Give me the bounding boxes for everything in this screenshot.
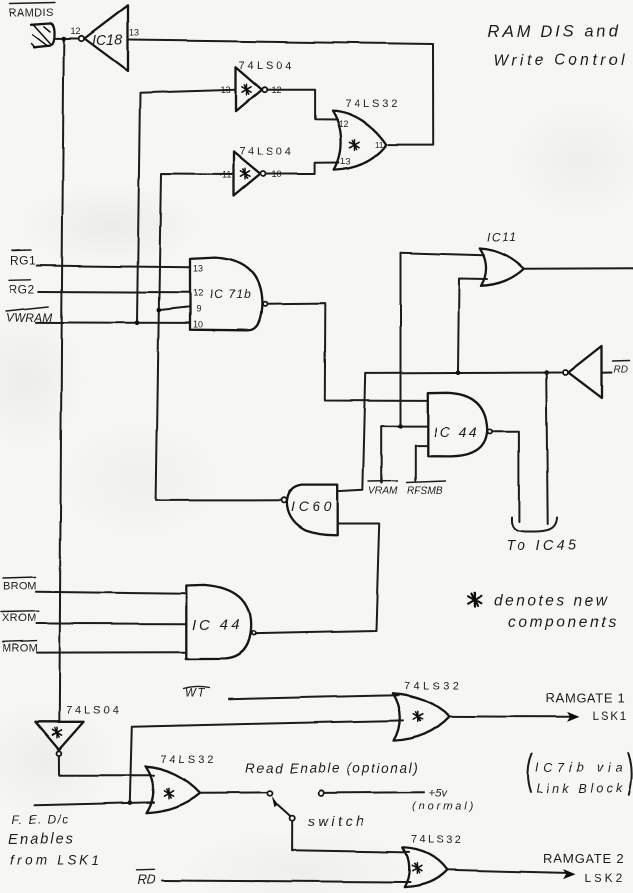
or-gate 74LS32 (RAMGATE 1, new): [392, 680, 462, 741]
inverter 74LS04 (second, new): [219, 146, 294, 196]
net label RD (bottom): [137, 869, 156, 886]
nand-gate IC44 (top): [428, 393, 492, 457]
svg-text:IC 71b: IC 71b: [210, 288, 252, 302]
svg-text:10: 10: [193, 320, 203, 330]
node junction VRAM / IC11 drop: [398, 424, 403, 429]
svg-text:XROM: XROM: [2, 612, 36, 624]
wire switch pole to RAMGATE2 gate top input: [292, 821, 409, 853]
svg-text:RG1: RG1: [10, 254, 36, 268]
wire IC11 top input from VRAM net: [401, 253, 485, 426]
node junction pin9 rail: [157, 308, 162, 313]
svg-text:components: components: [508, 614, 618, 631]
svg-text:Write Control: Write Control: [494, 52, 627, 69]
wire IC11 bottom input from RD net: [458, 279, 487, 373]
svg-text:IC 44: IC 44: [192, 617, 242, 634]
svg-text:from LSK1: from LSK1: [10, 853, 103, 868]
svg-text:denotes new: denotes new: [494, 593, 609, 610]
svg-text:13: 13: [341, 156, 351, 166]
inverter 74LS04 (top, new): [221, 60, 294, 112]
svg-text:Enables: Enables: [9, 831, 75, 847]
svg-text:Read Enable (optional): Read Enable (optional): [245, 761, 419, 776]
svg-text:74LS32: 74LS32: [411, 834, 463, 846]
wire VWRAM to IC71b pin 10: [37, 321, 191, 324]
svg-text:74LS32: 74LS32: [404, 680, 462, 692]
wire MROM to IC44 input: [37, 651, 186, 653]
wire RAMDIS vertical rail down to bottom inverter: [59, 41, 64, 722]
net label WT: [184, 686, 210, 699]
svg-text:RAMDIS: RAMDIS: [9, 7, 54, 19]
wire 74LS04 second input from IC60 output rail: [156, 174, 233, 501]
nand-gate IC60 (mirrored, output left): [281, 485, 338, 536]
or-gate 74LS32 (RAMGATE 2, new): [403, 834, 464, 887]
wire RAMGATE1 output with arrow to LSK1: [450, 691, 629, 724]
legend: star denotes new components: [468, 593, 618, 632]
wire 74LS04 top output to OR pin 12: [268, 90, 338, 120]
note (IC71b via Link Block): [528, 752, 632, 795]
wire IC44 middle input / VRAM stub: [382, 426, 428, 483]
svg-text:IC18: IC18: [92, 33, 123, 49]
wire IC18 output feedback loop to OR 74LS32 output: [128, 40, 433, 145]
svg-text:To IC45: To IC45: [506, 538, 579, 554]
svg-text:RAMGATE 1: RAMGATE 1: [545, 691, 625, 706]
svg-text:12: 12: [193, 288, 203, 298]
wire WT to RAMGATE1 gate top input: [229, 695, 398, 699]
net label MROM: [2, 641, 38, 655]
net label XROM: [1, 611, 39, 624]
svg-text:74LS04: 74LS04: [239, 60, 294, 72]
brace to IC45: [506, 518, 579, 555]
svg-text:(normal): (normal): [412, 801, 476, 813]
or-gate IC11: [480, 231, 524, 286]
wire 74LS04 second output to OR pin 13: [266, 163, 339, 175]
node junction F.E. / WT-gate riser: [128, 800, 133, 805]
svg-text:12: 12: [71, 26, 81, 36]
svg-text:RD: RD: [138, 872, 156, 886]
wire IC44 bottom input / RFSMB stub: [415, 446, 428, 481]
SECTION: bottom: [9, 680, 632, 887]
net label VWRAM: [6, 307, 53, 325]
svg-text:switch: switch: [308, 813, 367, 829]
svg-text:MROM: MROM: [2, 642, 38, 654]
net label VRAM: [369, 481, 399, 497]
svg-text:IC60: IC60: [291, 499, 336, 515]
svg-text:13: 13: [193, 264, 203, 274]
node junction RD / IC11 input: [456, 370, 461, 375]
wire RD net horizontal and down to IC60 top input: [338, 373, 563, 492]
wire IC60 bottom input from IC44 bottom output: [255, 524, 379, 634]
wire RG2 to IC71b pin 12: [39, 291, 190, 294]
SECTION: middle: [1, 231, 633, 660]
connector symbol (hatched input tag): [31, 23, 55, 48]
svg-text:74LS32: 74LS32: [345, 98, 400, 110]
text F.E. D/c Enables from LSK1: [9, 813, 103, 868]
wire IC71b pin 9 to IC60 output rail: [159, 307, 190, 310]
wire BROM to IC44 input: [37, 592, 187, 594]
node junction VWRAM / inverter rail: [135, 321, 140, 326]
svg-text:IC11: IC11: [488, 231, 518, 245]
svg-text:F. E. D/c: F. E. D/c: [12, 813, 70, 827]
SECTION: top: [9, 3, 627, 722]
wire RG1 to IC71b pin 13: [37, 266, 190, 268]
net label RFSMB: [407, 481, 446, 497]
svg-text:BROM: BROM: [3, 581, 37, 593]
node junction at RAMDIS: [62, 36, 67, 41]
svg-text:VRAM: VRAM: [369, 486, 399, 497]
svg-text:RAMGATE 2: RAMGATE 2: [543, 851, 624, 866]
switch: [267, 790, 367, 829]
svg-text:LSK1: LSK1: [592, 709, 629, 723]
wire IC71b output to IC44 top input: [267, 303, 428, 401]
svg-text:74LS04: 74LS04: [66, 705, 121, 717]
svg-text:74LS32: 74LS32: [161, 754, 217, 766]
or-gate 74LS32 (lower left, new): [146, 754, 217, 813]
nand-gate IC71b (4-input): [190, 258, 267, 331]
net label RAMDIS: [9, 3, 55, 20]
svg-text:WT: WT: [186, 688, 207, 700]
or-gate 74LS32 (new): [333, 98, 401, 170]
svg-text:RD: RD: [614, 364, 628, 375]
wire connector to IC18 input: [55, 37, 79, 39]
net label RG1: [10, 250, 36, 268]
svg-text:IC7ib via: IC7ib via: [536, 760, 628, 774]
svg-text:+5v: +5v: [429, 787, 449, 799]
wire IC60 output to left rail: [156, 499, 281, 501]
nand-gate IC44 (bottom, 3-input): [186, 585, 255, 659]
node junction RD / brace drop: [544, 370, 549, 375]
wire 74LS04 top input from VWRAM rail: [137, 90, 236, 323]
inverter IC18: [71, 5, 140, 71]
svg-text:12: 12: [339, 119, 349, 129]
svg-text:RFSMB: RFSMB: [407, 486, 442, 497]
svg-text:13: 13: [130, 28, 140, 38]
svg-text:IC 44: IC 44: [434, 424, 479, 440]
svg-text:RAM DIS and: RAM DIS and: [488, 23, 621, 41]
svg-text:9: 9: [196, 304, 201, 314]
wire IC11 output to right edge: [524, 267, 633, 270]
svg-text:11: 11: [375, 141, 384, 150]
text +5v (normal): [412, 787, 476, 812]
net label BROM: [3, 577, 37, 593]
wire OR output to switch contact: [200, 791, 267, 793]
wire RAMGATE2 output with arrow to LSK2: [447, 851, 625, 886]
svg-text:LSK2: LSK2: [584, 872, 625, 886]
svg-text:Link Block: Link Block: [537, 782, 626, 796]
wire RD to RAMGATE2 gate bottom input: [162, 881, 410, 883]
wire RD net down to IC45 brace: [546, 373, 548, 524]
inverter 74LS04 (down-pointing, new): [35, 705, 121, 756]
wire XROM to IC44 input: [37, 623, 187, 625]
wire +5V normal option: [324, 791, 424, 794]
net label RG2: [9, 279, 35, 296]
svg-text:74LS04: 74LS04: [239, 146, 294, 158]
wire IC44 output down to IC45 brace: [492, 431, 519, 521]
wire riser to RAMGATE1 gate bottom input: [130, 720, 403, 802]
wire 74LS04 output to OR gate top input: [59, 756, 154, 776]
inverter RD (left-pointing): [563, 346, 630, 398]
svg-text:RG2: RG2: [9, 282, 35, 296]
title text: [488, 23, 627, 69]
wire F.E. enable line to OR gate bottom input: [35, 802, 154, 805]
